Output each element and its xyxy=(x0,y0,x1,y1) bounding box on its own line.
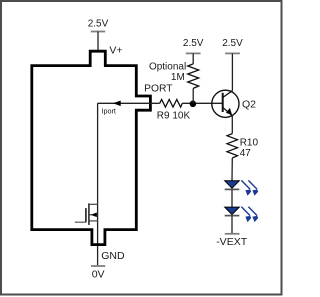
light arrows D2 xyxy=(241,207,258,222)
svg-text:1M: 1M xyxy=(171,72,185,83)
svg-text:PORT: PORT xyxy=(144,84,173,95)
wire R10 to LED1 xyxy=(231,158,233,181)
wire emitter to R10 xyxy=(231,116,233,134)
svg-text:Q2: Q2 xyxy=(242,98,256,110)
svg-text:R10: R10 xyxy=(240,137,259,148)
svg-text:R9 10K: R9 10K xyxy=(157,110,191,121)
svg-text:2.5V: 2.5V xyxy=(222,38,243,49)
transistor Q2 (NPN) xyxy=(212,90,239,117)
LED D1 xyxy=(225,181,240,190)
supply terminal 2.5V (Q2 collector) xyxy=(222,38,243,54)
wire rail1 to 1M xyxy=(192,53,194,64)
wire supply to V+ tab xyxy=(97,32,99,52)
channel bar xyxy=(88,203,90,225)
wire 1M to node xyxy=(192,88,194,103)
wire Iport vertical (port to MOSFET to GND tab) xyxy=(97,103,99,266)
svg-text:Optional: Optional xyxy=(149,61,186,72)
svg-text:Iport: Iport xyxy=(102,107,116,116)
terminal GND 0V xyxy=(91,265,105,267)
body stub with arrow xyxy=(89,214,98,216)
svg-text:V+: V+ xyxy=(109,45,122,57)
transistor M1 (internal MOSFET) xyxy=(75,203,98,225)
supply terminal 2.5V (1M pull-up) xyxy=(183,38,204,54)
svg-text:0V: 0V xyxy=(92,269,105,281)
supply terminal V+ 2.5V xyxy=(88,19,109,32)
wire LED1 to LED2 xyxy=(231,189,233,207)
resistor R9 10K (horizontal) xyxy=(160,100,183,108)
wire rail2 to collector xyxy=(231,53,233,90)
wire PORT horizontal (port wire to base of Q2) xyxy=(98,102,160,104)
gate lead xyxy=(75,221,86,223)
light arrows D1 xyxy=(241,180,258,195)
resistor R10 47 (vertical) xyxy=(227,134,238,158)
wire LED2 to -VEXT terminal xyxy=(231,216,233,234)
svg-text:2.5V: 2.5V xyxy=(88,19,109,30)
svg-text:2.5V: 2.5V xyxy=(183,38,204,49)
svg-text:47: 47 xyxy=(240,148,252,159)
LED D2 xyxy=(225,207,240,216)
IC box U1 with V+, PORT and GND tabs xyxy=(32,51,151,244)
drain stub xyxy=(89,203,98,205)
svg-text:GND: GND xyxy=(101,250,125,262)
source stub xyxy=(89,220,98,222)
resistor 1M optional (vertical) xyxy=(188,64,199,89)
terminal -VEXT xyxy=(225,233,240,235)
arrow Iport direction (points left) xyxy=(113,101,121,107)
gate bar xyxy=(85,208,87,222)
svg-text:-VEXT: -VEXT xyxy=(216,236,248,248)
node junction dot (R9 / 1M / Q2 base) xyxy=(190,101,197,108)
